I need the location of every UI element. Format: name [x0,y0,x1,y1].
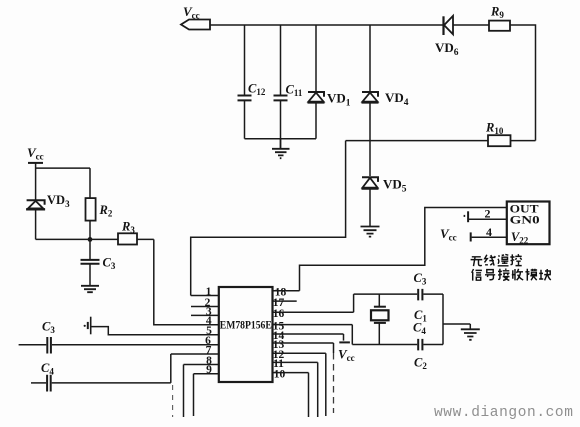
node terminal bar line4 [470,232,472,241]
wire pin12 [273,353,326,416]
svg-text:VD6: VD6 [435,40,459,58]
wire R10 leads [346,140,536,142]
wire R10 net to pin1: down, left, down [191,141,346,296]
wire pin11 [273,362,318,417]
capacitor C3 left [19,320,56,354]
node Vcc left terminal [27,145,44,200]
capacitor C3/C1 top [414,271,428,324]
pin numbers left 1-9 [205,286,213,376]
svg-text:Vcc: Vcc [338,347,355,364]
svg-text:C4: C4 [41,361,54,377]
node junction dot [88,237,93,242]
wire junction row [36,238,118,240]
pin numbers right 18-10 [273,287,287,381]
wire pin13 lower dashed [333,353,335,413]
svg-text:VD3: VD3 [47,193,70,209]
diode VD4 zener [362,25,409,176]
svg-text:GN0: GN0 [510,213,540,227]
wire oscillator top rail [354,293,443,295]
svg-text:C3: C3 [103,256,116,272]
module U2 wireless receiver box [507,202,550,246]
wire VD6 to R9 [454,24,490,26]
wire C3 left to IC pin6 [52,344,219,346]
wire pin15 to oscillator bottom rail [273,325,353,345]
IC U1 EM78P156E [219,287,273,382]
svg-text:C12: C12 [248,82,266,98]
capacitor C4 left [31,361,54,392]
label Chinese line1 wuxianyaokong [471,254,522,266]
wire bottom rail of C12 C11 VD1 [245,138,317,140]
capacitor C11 [274,25,303,139]
wire pin17 stub [273,300,297,302]
wire top Vcc rail [210,24,443,26]
label Chinese line2 xinhaojieshoumokuai [472,269,551,281]
node Vcc top-left supply tag [181,4,210,30]
ground under VD5 [361,227,380,237]
wire pin7 [171,353,219,355]
svg-text:C11: C11 [286,83,303,99]
ground under C11 rail [272,139,290,159]
resistor R2 [86,198,113,239]
svg-text:VD5: VD5 [383,177,407,195]
resistor R3 [118,220,137,245]
wire pin2 stub [191,306,219,308]
svg-text:Vcc: Vcc [27,145,44,162]
resistor R9 [489,5,510,31]
wire mic to IC pin5 [92,327,219,335]
svg-text:VD4: VD4 [385,90,409,108]
wire pin13 [273,343,334,353]
svg-text:16: 16 [273,308,285,320]
wire oscillator to ground [443,324,470,329]
node microphone-like terminal at pin5 [84,317,91,335]
wire pin8 [184,365,219,418]
svg-text:C2: C2 [414,356,427,372]
diode VD3 zener [26,193,70,239]
svg-text:EM78P156E: EM78P156E [220,320,272,332]
svg-text:R2: R2 [99,203,113,219]
svg-text:www.diangon.com: www.diangon.com [434,405,574,421]
resistor R10 [485,121,511,147]
capacitor C4/C2 bottom [413,321,427,372]
ground oscillator [461,329,480,340]
diode VD5 zener [362,177,407,227]
svg-text:Vcc: Vcc [183,4,200,21]
svg-text:4: 4 [486,225,492,239]
wire pin9 [194,374,219,416]
svg-text:9: 9 [206,364,212,376]
wire C4 to pin7 riser [52,354,171,383]
svg-text:10: 10 [274,368,286,380]
wire pin18 to module OUT [273,208,507,291]
wire module line 2 GN0 [469,218,507,220]
wire R3 to IC pin4 [137,239,219,324]
crystal X1 [371,294,389,344]
wire module line 4 V22 [472,236,507,238]
wire Vcc row to R2 top [36,168,90,198]
svg-text:R3: R3 [121,220,135,236]
svg-text:R9: R9 [490,5,504,21]
node terminal bar line2 [464,211,468,222]
svg-text:2: 2 [485,207,491,221]
wire pin10 [273,373,309,417]
wire R9 right to corner [510,25,536,141]
svg-text:C3: C3 [42,320,55,336]
wire oscillator right side [442,294,444,344]
wire pin14 to Vcc [273,334,344,341]
wire pin3 stub [191,314,219,316]
diode VD1 zener [308,25,351,139]
wire pin7 riser faint lower [172,385,174,417]
svg-text:Vcc: Vcc [440,226,457,243]
svg-text:VD1: VD1 [327,91,351,109]
svg-text:R10: R10 [485,121,504,137]
node Vcc terminal pin14 [338,342,355,363]
wire pin1 stub [191,295,219,297]
capacitor C12 [238,25,266,139]
diode VD6 [435,16,459,58]
ground under C3 mid [81,286,99,292]
capacitor C3 mid [81,239,116,285]
wire pin16 to oscillator top rail [273,294,354,312]
wire oscillator bottom rail [352,344,443,346]
svg-text:C3: C3 [414,271,427,287]
